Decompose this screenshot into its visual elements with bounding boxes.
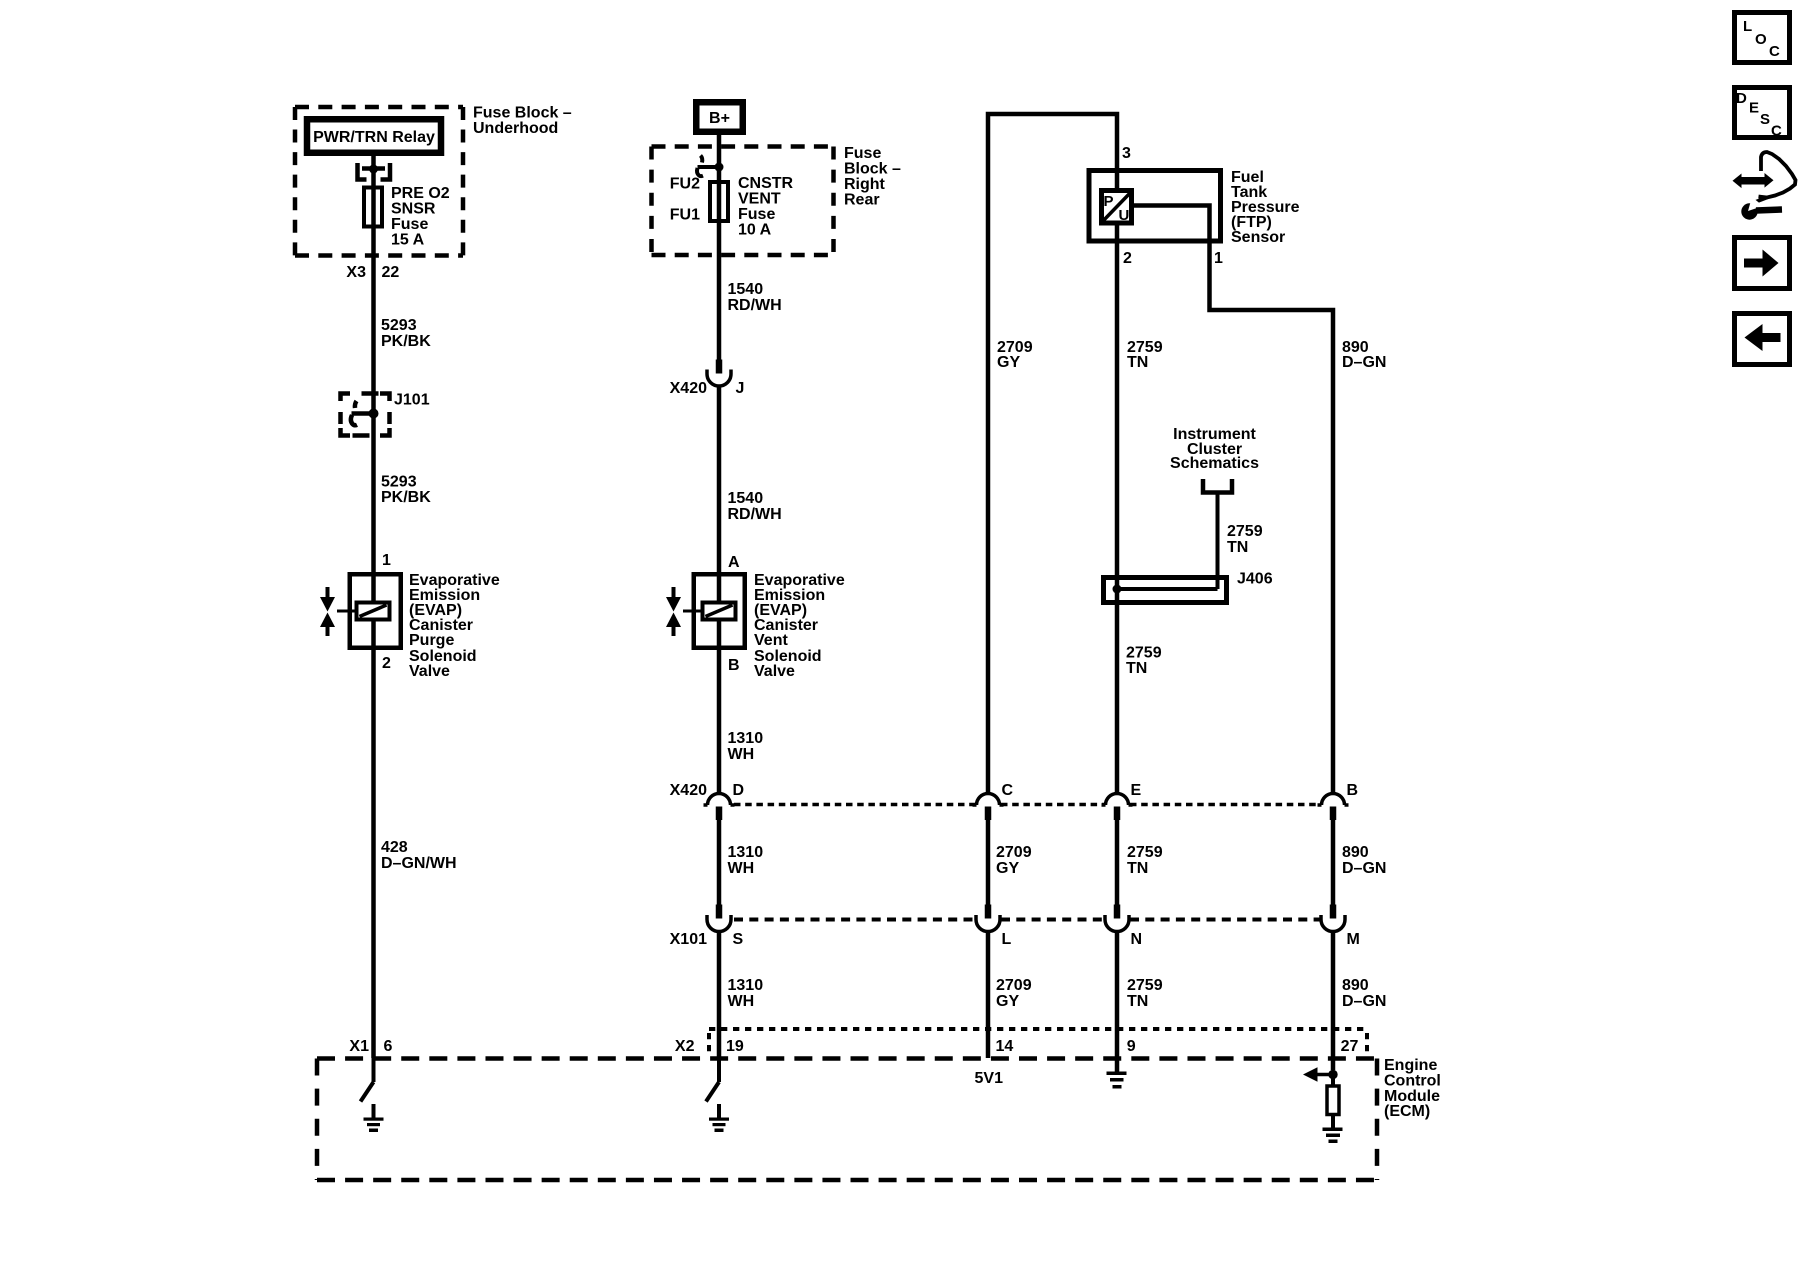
svg-text:3: 3 [1122,145,1131,162]
purge valve symbol [320,587,335,636]
svg-text:D: D [1736,90,1747,107]
svg-text:C: C [1771,123,1782,140]
svg-text:GY: GY [996,860,1019,877]
svg-text:SNSR: SNSR [391,201,436,218]
breaker element FU2 [697,156,719,177]
wire 1310 WH X420 to X101 [717,820,722,905]
vent valve tick [683,610,703,613]
wire 2709 GY top label [997,339,1033,371]
connector X420 J [707,360,731,387]
svg-text:M: M [1347,931,1360,948]
fuse block right rear dashed box [652,147,834,256]
fuse CNSTR VENT 10 A [710,182,728,221]
svg-text:27: 27 [1341,1038,1359,1055]
wire 2759 TN X101 to ECM [1115,930,1120,1072]
svg-text:22: 22 [382,264,400,281]
wire 1540 RD/WH upper label [728,281,782,314]
svg-text:L: L [1743,18,1752,35]
connector X101 M [1321,905,1345,932]
wire 428 D-GN/WH label [381,839,457,872]
svg-text:Block –: Block – [844,161,901,178]
svg-text:1: 1 [1214,250,1223,267]
svg-text:C: C [1769,43,1780,60]
junction dot on relay terminal [369,165,378,174]
connector row X101 dashed line [734,918,1320,922]
svg-text:D: D [733,782,745,799]
vent valve symbol [666,587,681,636]
svg-text:VENT: VENT [738,191,781,208]
svg-text:TN: TN [1126,660,1147,677]
svg-text:TN: TN [1127,354,1148,371]
svg-text:WH: WH [728,860,755,877]
wire 2759 TN top label [1127,339,1163,371]
svg-text:Sensor: Sensor [1231,229,1285,246]
svg-text:2709: 2709 [996,844,1032,861]
EVAP canister vent solenoid valve box [694,574,745,648]
svg-text:A: A [728,554,740,571]
svg-text:19: 19 [726,1038,744,1055]
svg-text:PWR/TRN Relay: PWR/TRN Relay [313,129,435,146]
splice pack J406 bus bar [1117,587,1218,591]
svg-text:GY: GY [997,354,1020,371]
svg-text:10 A: 10 A [738,222,772,239]
svg-text:D–GN/WH: D–GN/WH [381,855,457,872]
relay PWR/TRN Relay [307,119,441,153]
svg-text:E: E [1749,100,1759,117]
connector X420 J labels [670,380,745,397]
FTP sensor label [1231,169,1300,246]
svg-text:1540: 1540 [728,281,764,298]
svg-text:TN: TN [1227,539,1248,556]
connector X2 dotted outline [709,1029,1367,1056]
svg-text:Vent: Vent [754,632,788,649]
svg-text:GY: GY [996,993,1019,1010]
svg-text:Fuse: Fuse [391,216,428,233]
wire 5293 PK/BK upper label [381,317,431,350]
svg-text:PRE O2: PRE O2 [391,185,450,202]
connector X420 B [1318,794,1349,821]
svg-text:L: L [1002,931,1012,948]
wire 5293 PK/BK lower label [381,474,431,507]
svg-text:Valve: Valve [754,663,795,680]
wire 1310 WH X101 to ECM [717,930,722,1058]
wire through fuse down to J101 [371,186,376,392]
wire 890 D-GN X101 to ECM [1331,930,1336,1070]
ECM internal switch pin 19 [706,1058,719,1102]
svg-text:B: B [728,657,740,674]
fuse CNSTR VENT label [738,175,794,239]
svg-text:J101: J101 [394,392,430,409]
svg-text:X2: X2 [675,1038,695,1055]
svg-text:X3: X3 [346,264,366,281]
wire 2759 TN branch label [1227,523,1263,556]
svg-text:2709: 2709 [996,977,1032,994]
wire J101 to purge solenoid [371,392,376,572]
relay terminal bracket [358,163,391,180]
splice pack J406 junction dot [1113,585,1122,594]
svg-text:X101: X101 [670,931,707,948]
svg-text:9: 9 [1127,1038,1136,1055]
wire 890 D-GN X420 to X101 [1331,820,1336,905]
fuse PRE O2 SNSR 15 A [364,188,382,227]
connector X420 D [704,794,735,821]
svg-text:TN: TN [1127,993,1148,1010]
ground ECM pin 6 [364,1104,384,1132]
splice J101 symbol [351,401,374,425]
icon forward arrow box [1735,238,1790,289]
svg-text:890: 890 [1342,844,1369,861]
junction dot FU2 [715,163,724,172]
svg-text:X1: X1 [349,1038,369,1055]
wire 1540 RD/WH lower label [728,490,782,523]
ECM internal switch pin 6 [361,1058,374,1102]
svg-text:WH: WH [728,993,755,1010]
connector X101 N [1105,905,1129,932]
svg-text:Fuse: Fuse [738,206,775,223]
svg-text:D–GN: D–GN [1342,993,1386,1010]
wire B+ to fuse [717,135,722,181]
svg-text:S: S [733,931,744,948]
svg-text:Purge: Purge [409,632,454,649]
splice pack J406 box [1104,578,1227,603]
svg-text:Valve: Valve [409,663,450,680]
svg-text:FU1: FU1 [670,207,700,224]
svg-text:5V1: 5V1 [975,1070,1004,1087]
fuse PRE O2 label [391,185,450,249]
svg-text:2759: 2759 [1127,977,1163,994]
svg-text:PK/BK: PK/BK [381,489,431,506]
svg-text:RD/WH: RD/WH [728,297,782,314]
connector X101 L [976,905,1000,932]
connector X3 pin 22 labels [346,264,399,281]
icon LOC box [1735,13,1790,63]
svg-text:B: B [1347,782,1359,799]
B+ box [696,102,743,132]
instrument cluster off-page bracket [1203,479,1232,493]
junction dot pin 27 [1328,1070,1337,1079]
ECM label [1384,1057,1441,1120]
svg-text:890: 890 [1342,977,1369,994]
wire purge solenoid to ECM [371,650,376,1058]
wire 2759 TN below J406 label [1126,645,1162,678]
FTP sensor box [1089,171,1221,242]
svg-text:(ECM): (ECM) [1384,1103,1430,1120]
svg-text:15 A: 15 A [391,232,425,249]
ground ECM pin 19 [709,1104,729,1132]
svg-text:Schematics: Schematics [1170,455,1259,472]
wire vent solenoid to X420 D [717,650,722,794]
ECM dashed box [317,1059,1377,1181]
connector row X420 labels [670,782,1358,799]
svg-text:WH: WH [728,746,755,763]
svg-text:6: 6 [384,1038,393,1055]
fuse block underhood dashed box [295,107,463,256]
svg-text:2759: 2759 [1127,844,1163,861]
svg-text:P: P [1104,193,1114,210]
svg-text:14: 14 [996,1038,1014,1055]
wire 2759 TN from FTP pin 2 [1115,225,1120,794]
wire 2709 GY X420 to X101 [986,820,991,905]
svg-text:N: N [1131,931,1143,948]
svg-text:C: C [1002,782,1014,799]
svg-text:O: O [1755,31,1767,48]
svg-text:Rear: Rear [844,192,880,209]
svg-text:D–GN: D–GN [1342,860,1386,877]
wire fuse to connector X420 J [717,180,722,360]
svg-text:Fuse Block –: Fuse Block – [473,105,572,122]
wire 2759 TN X420 to X101 [1115,820,1120,905]
instrument cluster label [1170,426,1259,472]
svg-text:TN: TN [1127,860,1148,877]
connector row X101 labels [670,931,1360,948]
signal direction arrow pin 27 [1303,1067,1333,1081]
svg-text:U: U [1119,207,1130,224]
svg-text:2: 2 [1123,250,1132,267]
connector X1 pin 6 labels [349,1038,392,1055]
svg-text:2759: 2759 [1126,645,1162,662]
connector X420 C [973,794,1004,821]
wire 1310 WH label above X420 D [728,730,764,763]
purge solenoid label [409,572,500,680]
splice J101 junction dot [369,409,379,419]
svg-text:CNSTR: CNSTR [738,175,794,192]
svg-text:B+: B+ [709,110,730,127]
svg-text:Right: Right [844,176,886,193]
FTP P/U transducer symbol [1102,191,1132,225]
svg-text:PK/BK: PK/BK [381,333,431,350]
svg-text:Underhood: Underhood [473,120,558,137]
connector X2 pin labels [675,1038,1359,1055]
wire 890 D-GN top label [1342,339,1386,371]
svg-text:D–GN: D–GN [1342,354,1386,371]
svg-text:E: E [1131,782,1142,799]
svg-text:2759: 2759 [1227,523,1263,540]
purge valve tick [337,610,357,613]
connector row X420 dashed line [734,803,1320,807]
svg-text:2: 2 [382,655,391,672]
svg-text:1310: 1310 [728,730,764,747]
purge solenoid coil [357,603,390,620]
ECM internal resistor pin 27 [1327,1074,1339,1128]
fuse block right rear label [844,145,901,209]
svg-text:5293: 5293 [381,474,417,491]
svg-text:1310: 1310 [728,844,764,861]
icon harness routing arrows and wrench [1733,152,1796,220]
svg-text:X420: X420 [670,380,707,397]
vent solenoid label [754,572,845,680]
ground ECM pin 27 [1323,1128,1343,1144]
wire 2709 GY X101 to ECM [986,930,991,1058]
svg-text:Fuse: Fuse [844,145,881,162]
wire through purge solenoid [371,572,376,650]
svg-text:1: 1 [382,552,391,569]
wire relay to fuse F1 [371,156,376,186]
svg-text:428: 428 [381,839,408,856]
svg-text:1540: 1540 [728,490,764,507]
connector X420 E [1102,794,1133,821]
svg-text:5293: 5293 [381,317,417,334]
wire 2709 GY top run [988,114,1117,794]
icon back arrow box [1735,314,1790,365]
EVAP canister purge solenoid valve box [350,574,401,648]
vent solenoid coil [703,603,736,620]
svg-text:FU2: FU2 [670,176,700,193]
wire through vent solenoid [717,572,722,650]
svg-text:1310: 1310 [728,977,764,994]
svg-text:X420: X420 [670,782,707,799]
wire 890 D-GN from FTP pin 1 [1134,206,1333,795]
svg-text:S: S [1760,111,1770,128]
FU2 FU1 labels [670,176,700,224]
icon DESC box [1735,88,1790,140]
wire instrument cluster to J406 [1216,492,1220,589]
svg-text:J406: J406 [1237,571,1273,588]
splice J101 dashed box [341,394,390,436]
connector X101 S [707,905,731,932]
wire X420 J to vent solenoid [717,385,722,572]
svg-text:RD/WH: RD/WH [728,506,782,523]
svg-text:J: J [736,380,745,397]
fuse block underhood label [473,105,572,138]
ground ECM pin 9 [1107,1072,1127,1089]
